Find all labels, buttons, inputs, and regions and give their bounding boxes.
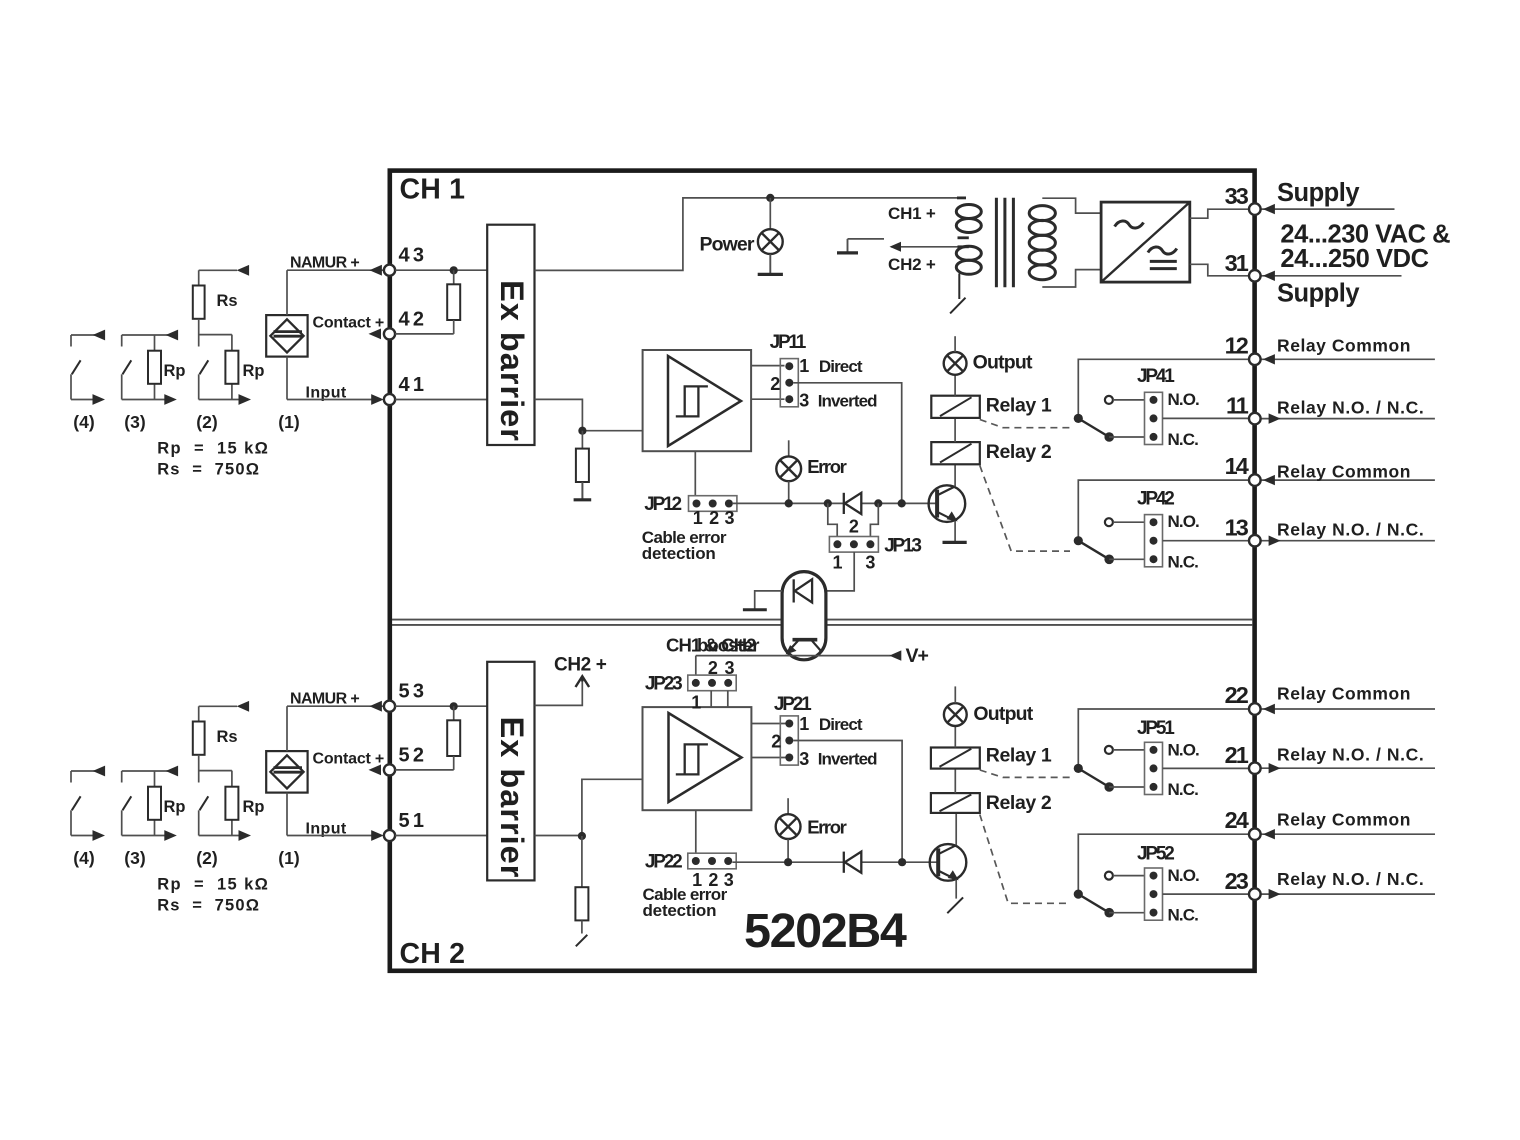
junction dot 43 line — [450, 266, 458, 274]
emitter wire Q2 — [955, 880, 957, 899]
svg-text:Supply: Supply — [1277, 279, 1360, 307]
svg-text:3: 3 — [724, 658, 734, 678]
svg-text:N.C.: N.C. — [1168, 430, 1199, 449]
relay coil Relay1 CH1 — [931, 396, 980, 418]
resistor Rp (2) CH2 — [225, 787, 238, 820]
terminal 43 — [384, 265, 395, 276]
collector wire Q2 — [955, 813, 957, 845]
power lamp stub — [769, 198, 771, 229]
wire comparator out1 CH1 — [751, 365, 784, 367]
svg-text:31: 31 — [1225, 250, 1249, 276]
svg-text:22: 22 — [1225, 682, 1249, 708]
svg-text:41: 41 — [399, 374, 428, 396]
svg-text:Rp: Rp — [243, 798, 265, 816]
R4 end slash — [576, 935, 588, 947]
wire relay2-relay1 CH1 — [954, 418, 956, 442]
svg-text:JP41: JP41 — [1137, 366, 1175, 387]
junction dot power lamp — [766, 194, 774, 202]
svg-text:Contact +: Contact + — [313, 315, 385, 332]
arrow into 43 — [369, 265, 382, 276]
svg-text:NAMUR +: NAMUR + — [290, 254, 359, 271]
wire JP12 to transistor base CH1 — [733, 502, 937, 504]
sensor option (2) top wire CH2 — [199, 705, 237, 707]
svg-text:Relay 1: Relay 1 — [986, 744, 1052, 766]
sensor option (3) switch CH1 — [122, 334, 178, 336]
wire Ex barrier to supply rail CH1 — [535, 198, 958, 271]
svg-text:V+: V+ — [906, 645, 929, 667]
terminal 24 — [1261, 833, 1435, 835]
svg-text:Rs: Rs — [217, 728, 238, 746]
module outline box 5202B4 — [390, 171, 1255, 971]
svg-text:Relay 2: Relay 2 — [986, 441, 1052, 463]
terminal 12 — [1261, 358, 1435, 360]
svg-text:Rp: Rp — [164, 362, 186, 380]
svg-text:N.O.: N.O. — [1168, 741, 1200, 760]
Ex barrier box CH2 — [487, 662, 534, 881]
converter DC symbol — [1148, 247, 1177, 254]
svg-text:1: 1 — [799, 714, 809, 734]
emitter wire Q1 — [954, 521, 956, 543]
svg-text:Supply: Supply — [1277, 179, 1360, 207]
wire R3 to 52 — [453, 756, 455, 770]
junction dot diode right CH1 — [874, 499, 882, 507]
primary lead slash — [950, 298, 965, 314]
wire R1 to 42 — [453, 320, 455, 334]
wire dot to resistor R1 — [453, 270, 455, 284]
svg-text:2: 2 — [708, 658, 718, 678]
svg-text:24...250 VDC: 24...250 VDC — [1280, 245, 1428, 273]
terminal 52 — [384, 764, 395, 775]
svg-text:52: 52 — [399, 744, 428, 766]
svg-text:42: 42 — [399, 308, 428, 330]
jumper JP13 — [829, 537, 878, 553]
ground under R2 CH1 — [581, 482, 583, 500]
dashed link relay1-JP41 — [980, 420, 1072, 428]
wire JP11 pin2 to transistor line — [793, 383, 902, 504]
svg-text:JP21: JP21 — [774, 694, 812, 715]
sensor option (4) switch CH1 — [71, 334, 103, 336]
booster transistor symbol — [793, 638, 818, 642]
svg-text:2: 2 — [849, 516, 859, 536]
svg-text:23: 23 — [1225, 868, 1249, 894]
sensor option (3) switch CH2 — [122, 770, 178, 772]
arrow into 41 — [371, 394, 384, 405]
svg-text:JP23: JP23 — [645, 674, 682, 695]
svg-text:JP51: JP51 — [1137, 718, 1175, 739]
svg-text:booster: booster — [697, 634, 759, 655]
terminal 22 — [1261, 708, 1435, 710]
svg-text:(3): (3) — [124, 848, 145, 868]
svg-text:3: 3 — [799, 391, 809, 411]
jumper JP23 — [688, 675, 736, 691]
junction dot error CH1 — [785, 499, 793, 507]
comparator box CH1 — [643, 350, 752, 451]
comparator triangle CH2 — [669, 713, 742, 802]
svg-text:1: 1 — [832, 553, 842, 573]
secondary top lead — [1042, 198, 1101, 213]
comparator box CH2 — [643, 707, 752, 810]
sensor option (2) switch CH2 — [198, 755, 200, 783]
svg-text:3: 3 — [724, 508, 734, 528]
Q2 end slash — [947, 897, 963, 913]
wire to resistor R2 — [581, 431, 583, 449]
svg-text:N.O.: N.O. — [1168, 512, 1200, 531]
svg-text:JP13: JP13 — [884, 536, 921, 557]
wire Ex barrier to CH2+ arrow — [535, 682, 583, 706]
svg-text:Relay N.O. / N.C.: Relay N.O. / N.C. — [1277, 745, 1424, 765]
wire comparator to JP22 — [695, 810, 697, 853]
svg-text:2: 2 — [771, 731, 781, 751]
wire comparator out3 CH2 — [751, 757, 785, 759]
svg-text:Error: Error — [807, 456, 846, 477]
resistor Rp (3) CH1 — [148, 351, 161, 384]
svg-text:3: 3 — [799, 749, 809, 769]
svg-text:(2): (2) — [196, 848, 217, 868]
wire JP23 pin2 down — [710, 691, 712, 707]
svg-text:NAMUR +: NAMUR + — [290, 690, 359, 707]
svg-text:JP42: JP42 — [1137, 488, 1174, 509]
sensor option (2) switch CH1 — [198, 319, 200, 347]
AC-DC converter box — [1101, 202, 1190, 282]
svg-text:Relay Common: Relay Common — [1277, 810, 1411, 830]
NAMUR sensor (1) CH2 — [266, 751, 307, 793]
wire JP21 pin2 to transistor line — [793, 741, 902, 863]
svg-text:Relay N.O. / N.C.: Relay N.O. / N.C. — [1277, 869, 1424, 889]
svg-text:2: 2 — [709, 508, 719, 528]
arrow at 42 — [369, 329, 382, 340]
svg-text:1: 1 — [691, 692, 701, 712]
svg-text:Relay Common: Relay Common — [1277, 335, 1411, 355]
svg-text:24: 24 — [1225, 807, 1249, 833]
arrow at 52 — [369, 765, 382, 776]
booster diode — [793, 579, 795, 602]
transformer primary top group — [957, 196, 966, 199]
svg-text:1: 1 — [693, 508, 703, 528]
wire to resistor R4 — [581, 836, 583, 887]
transformer centre tap arrow — [891, 246, 959, 248]
svg-text:Rs: Rs — [217, 292, 238, 310]
error lamp stub top CH1 — [788, 440, 790, 456]
svg-text:Rs = 750Ω: Rs = 750Ω — [157, 460, 260, 478]
resistor Rs (2) CH1 — [193, 286, 205, 319]
arrow into 53 — [369, 701, 382, 712]
svg-text:5202B4: 5202B4 — [744, 904, 907, 958]
output lamp stub CH2 — [954, 686, 956, 703]
svg-text:Rp = 15 kΩ: Rp = 15 kΩ — [157, 875, 269, 893]
output lamp CH2 — [944, 703, 967, 726]
transformer secondary coil — [1029, 206, 1055, 221]
resistor R3 (53-52) CH2 — [447, 720, 460, 756]
error lamp stub bottom CH2 — [787, 839, 789, 862]
svg-text:Direct: Direct — [819, 715, 863, 734]
transformer centre tap ground — [847, 239, 849, 253]
svg-text:CH2 +: CH2 + — [888, 255, 936, 274]
svg-text:3: 3 — [865, 553, 875, 573]
junction dot comparator input CH1 — [578, 427, 586, 435]
jumper JP12 — [689, 496, 737, 512]
wire relay1 to output lamp CH2 — [954, 726, 956, 748]
resistor R2 CH1 — [576, 449, 589, 482]
svg-text:(3): (3) — [124, 412, 145, 432]
relay contact JP52 — [1078, 834, 1249, 894]
relay coil Relay2 CH2 — [931, 793, 980, 813]
error lamp CH2 — [776, 814, 801, 839]
svg-text:Relay N.O. / N.C.: Relay N.O. / N.C. — [1277, 519, 1424, 539]
svg-text:12: 12 — [1225, 332, 1249, 358]
terminal 41 — [384, 394, 395, 405]
sensor option (4) switch CH2 — [71, 770, 103, 772]
ground Q1 — [943, 541, 967, 544]
wire dot to resistor R3 — [453, 706, 455, 720]
power lamp ground — [769, 254, 771, 274]
svg-text:detection: detection — [643, 901, 717, 920]
output lamp CH1 — [944, 352, 967, 375]
jumper JP11 — [780, 359, 798, 407]
svg-text:JP52: JP52 — [1137, 844, 1174, 865]
terminal 53 — [384, 701, 395, 712]
svg-text:JP11: JP11 — [770, 332, 807, 353]
svg-text:Output: Output — [973, 703, 1033, 725]
wire 51 to Ex barrier — [395, 835, 487, 837]
wire JP22 to transistor base CH2 — [732, 861, 938, 863]
resistor Rp (2) CH1 — [225, 351, 238, 384]
svg-text:Error: Error — [807, 816, 846, 837]
converter output lead 33 — [1190, 209, 1249, 218]
NAMUR sensor (1) CH1 — [266, 315, 307, 357]
resistor R4 CH2 — [575, 887, 588, 920]
svg-text:(4): (4) — [73, 412, 94, 432]
terminal 33 — [1261, 208, 1395, 210]
svg-text:detection: detection — [642, 544, 716, 563]
junction dot jp11 wire CH1 — [898, 499, 906, 507]
svg-text:Rp: Rp — [164, 798, 186, 816]
terminal 11 — [1261, 418, 1435, 420]
wire 43 to Ex barrier — [395, 269, 487, 271]
relay coil Relay1 CH2 — [931, 748, 980, 769]
jumper JP21 — [780, 716, 798, 765]
svg-text:14: 14 — [1225, 453, 1249, 479]
resistor Rs (2) CH2 — [193, 722, 205, 755]
svg-text:21: 21 — [1225, 742, 1249, 768]
junction dot jp21 wire CH2 — [898, 858, 906, 866]
hysteresis symbol CH1 — [685, 386, 708, 416]
converter diagonal — [1101, 202, 1190, 282]
wire to JP13 pin1 — [828, 503, 837, 536]
resistor R1 (43-42) CH1 — [447, 284, 460, 320]
relay contact JP42 — [1078, 480, 1249, 541]
wire NAMUR sensor to 53 CH2 — [286, 706, 288, 751]
svg-text:N.C.: N.C. — [1168, 905, 1199, 924]
svg-text:N.C.: N.C. — [1168, 552, 1199, 571]
svg-text:2: 2 — [770, 374, 780, 394]
CH2+ up arrow — [576, 676, 590, 687]
svg-text:CH 1: CH 1 — [400, 173, 466, 205]
dashed link relay2-JP42 — [980, 466, 1070, 552]
error lamp stub top CH2 — [787, 798, 789, 814]
wire JP23 pin3 down — [727, 691, 729, 707]
converter AC tilde — [1115, 221, 1144, 228]
svg-text:JP12: JP12 — [644, 494, 681, 515]
wire comparator to JP12 — [694, 451, 696, 496]
svg-text:(2): (2) — [196, 412, 217, 432]
sensor option (2) top wire CH1 — [199, 269, 237, 271]
svg-text:JP22: JP22 — [645, 852, 682, 873]
wire JP13 pin2 to booster — [826, 552, 854, 591]
svg-text:1: 1 — [799, 356, 809, 376]
V+ rail — [696, 655, 891, 657]
transistor Q1 CH1 — [929, 485, 966, 522]
svg-text:Ex barrier: Ex barrier — [494, 717, 530, 879]
resistor Rp (3) CH2 — [148, 787, 161, 820]
output lamp stub CH1 — [954, 336, 956, 352]
junction dot 53 line — [450, 702, 458, 710]
wire NAMUR sensor to 41 CH1 — [286, 357, 288, 400]
junction dot comparator input CH2 — [578, 832, 586, 840]
dashed link relay1-JP51 — [980, 770, 1071, 777]
terminal 14 — [1261, 479, 1435, 481]
wire comparator out1 CH2 — [751, 723, 785, 725]
channel divider double line — [392, 619, 1252, 621]
svg-text:(1): (1) — [278, 412, 299, 432]
svg-text:CH1 +: CH1 + — [888, 204, 936, 223]
svg-text:Rp = 15 kΩ: Rp = 15 kΩ — [157, 439, 269, 457]
wire JP23 pin1 up — [695, 656, 697, 676]
booster capsule — [782, 572, 826, 660]
wire comparator out3 CH1 — [751, 398, 784, 400]
Ex barrier box CH1 — [487, 225, 534, 445]
svg-text:Relay N.O. / N.C.: Relay N.O. / N.C. — [1277, 397, 1424, 417]
terminal 23 — [1261, 893, 1435, 895]
transformer core — [995, 198, 998, 288]
svg-text:N.O.: N.O. — [1168, 390, 1200, 409]
svg-text:CH 2: CH 2 — [400, 938, 466, 970]
junction dot diode left CH1 — [824, 499, 832, 507]
V+ arrow — [889, 650, 901, 660]
jumper JP22 — [688, 853, 736, 869]
wire relay2-relay1 CH2 — [954, 769, 956, 793]
svg-text:(1): (1) — [278, 848, 299, 868]
transformer primary bottom group — [956, 246, 981, 260]
junction dot error CH2 — [784, 858, 792, 866]
diode D2 CH2 — [843, 852, 845, 873]
wire to JP13 pin3 — [870, 503, 878, 536]
wire NAMUR sensor to 51 CH2 — [286, 793, 288, 836]
svg-text:53: 53 — [399, 681, 428, 703]
wire 41 to Ex barrier — [395, 399, 487, 401]
svg-text:Relay 2: Relay 2 — [986, 792, 1052, 814]
wire Ex barrier to comparator CH2 — [535, 779, 643, 835]
relay contact JP41 — [1078, 359, 1249, 418]
svg-text:43: 43 — [399, 245, 428, 267]
svg-text:N.C.: N.C. — [1168, 780, 1199, 799]
wire NAMUR sensor to 43 CH1 — [286, 270, 288, 315]
svg-text:Inverted: Inverted — [818, 391, 877, 410]
terminal 21 — [1261, 767, 1435, 769]
terminal 31 — [1261, 275, 1402, 277]
svg-text:Rs = 750Ω: Rs = 750Ω — [157, 896, 260, 914]
terminal 51 — [384, 830, 395, 841]
wire Ex barrier to comparator CH1 — [535, 399, 643, 430]
svg-text:13: 13 — [1225, 515, 1249, 541]
hysteresis symbol CH2 — [685, 744, 708, 774]
svg-text:11: 11 — [1226, 393, 1249, 419]
dashed link relay2-JP52 — [980, 815, 1070, 904]
comparator triangle CH1 — [668, 356, 741, 446]
svg-text:Ex barrier: Ex barrier — [494, 280, 530, 442]
wire relay1 to output lamp CH1 — [954, 375, 956, 396]
booster left ground wire — [755, 591, 782, 609]
error lamp CH1 — [776, 456, 801, 481]
diode D1 CH1 — [843, 493, 845, 514]
svg-text:(4): (4) — [73, 848, 94, 868]
svg-text:Output: Output — [973, 352, 1033, 374]
transistor Q2 CH2 — [930, 844, 967, 881]
terminal 42 — [384, 328, 395, 339]
svg-text:51: 51 — [399, 810, 428, 832]
relay contact JP51 — [1078, 709, 1249, 768]
collector wire Q1 — [954, 464, 956, 486]
secondary bottom lead — [1042, 270, 1101, 287]
svg-text:33: 33 — [1225, 183, 1249, 209]
arrow into 51 — [371, 830, 384, 841]
svg-text:Relay Common: Relay Common — [1277, 683, 1411, 703]
svg-text:Relay 1: Relay 1 — [986, 395, 1052, 417]
terminal 13 — [1261, 540, 1435, 542]
converter output lead 31 — [1190, 264, 1249, 276]
svg-text:Contact +: Contact + — [313, 751, 385, 768]
wire R4 down — [581, 920, 583, 933]
power indicator lamp — [758, 229, 783, 254]
relay coil Relay2 CH1 — [931, 442, 980, 464]
svg-text:Inverted: Inverted — [818, 750, 877, 769]
svg-text:Rp: Rp — [243, 362, 265, 380]
svg-text:N.O.: N.O. — [1168, 866, 1200, 885]
wire 53 to Ex barrier — [395, 705, 487, 707]
svg-text:Power: Power — [700, 234, 755, 256]
svg-text:Direct: Direct — [819, 357, 863, 376]
svg-text:CH2 +: CH2 + — [554, 655, 607, 676]
error lamp stub bottom CH1 — [788, 481, 790, 503]
booster ground bar — [743, 608, 767, 611]
svg-text:Relay Common: Relay Common — [1277, 461, 1411, 481]
